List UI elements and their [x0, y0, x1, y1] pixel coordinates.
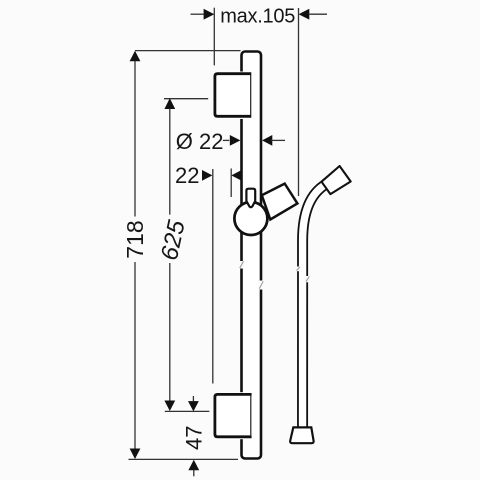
dim max.105 right tail: [309, 13, 327, 15]
slider pin: [246, 189, 255, 208]
dim 625 top extension line: [164, 98, 208, 100]
dim diameter 22 left tail: [223, 139, 229, 141]
dim 47 bottom arrow: [188, 460, 199, 470]
svg-text:Ø 22: Ø 22: [176, 129, 224, 154]
wall bar break lower: [258, 281, 264, 290]
top wall mount: [213, 72, 252, 120]
dim 625 bottom arrow: [164, 401, 175, 412]
wall bar break upper: [239, 261, 245, 269]
dim 718 bottom extension line: [129, 458, 239, 460]
bottom wall mount: [213, 392, 252, 439]
dim 625 line upper: [169, 109, 171, 215]
dim max.105 left arrow: [204, 9, 215, 20]
dim diameter 22 right arrow: [262, 135, 272, 146]
dim 47 bottom tail: [193, 470, 195, 476]
svg-text:47: 47: [182, 426, 207, 450]
dim 47 top arrow: [188, 401, 199, 411]
shower hose break: [296, 267, 311, 283]
dim 625 line lower: [169, 263, 171, 401]
dim 625 bottom extension line: [165, 410, 210, 412]
dim max.105 left extension line: [213, 8, 215, 66]
dim max.105 right arrow: [299, 9, 310, 20]
slider knob: [234, 202, 267, 235]
dim 22 right tail: [242, 174, 255, 176]
dim 718 line lower: [134, 262, 136, 449]
svg-text:22: 22: [175, 163, 199, 188]
dim max.105 right extension line: [298, 8, 300, 196]
dim 22 left arrow: [202, 170, 212, 181]
dim diameter 22 right tail: [271, 139, 285, 141]
dim 718 bottom arrow: [130, 449, 141, 460]
dim 718 line upper: [134, 61, 136, 217]
holder cone: [262, 184, 298, 220]
dim 22 right extension line: [230, 169, 232, 198]
dim 47 top tail: [192, 396, 194, 402]
dim max.105 left tail: [191, 13, 204, 15]
svg-text:max.105: max.105: [220, 5, 295, 27]
dim 718 top extension line: [135, 50, 241, 52]
dim 718 top arrow: [130, 51, 141, 62]
dim 22 left extension line: [212, 169, 214, 384]
dim 22 right arrow: [231, 170, 241, 181]
dim diameter 22 left arrow: [230, 135, 241, 146]
hose end cone: [290, 427, 314, 443]
dim 625 top arrow: [164, 98, 175, 109]
svg-text:718: 718: [122, 220, 148, 258]
wall bar tube: [242, 52, 262, 459]
shower hose tube: [303, 184, 326, 427]
hose connector at handle: [322, 166, 351, 194]
